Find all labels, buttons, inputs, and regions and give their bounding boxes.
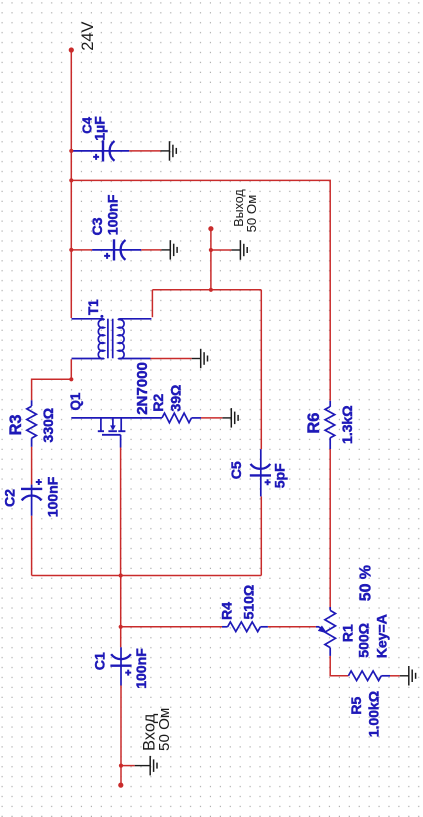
svg-text:R6: R6 [305,413,323,434]
junction output ground tap [209,248,213,252]
wire input ground tap [121,765,135,767]
capacitor C2 [21,479,42,516]
ground at R5 [400,675,409,677]
svg-text:50 Ом: 50 Ом [156,708,173,751]
junction feedback rail [119,573,123,577]
wire secondary bottom to ground [151,358,192,360]
junction input node [119,625,123,629]
wire rail to input node [120,576,122,648]
wire output ground tap [211,249,232,251]
svg-text:50 %: 50 % [357,565,374,601]
ground at T1 secondary [192,358,201,360]
wire R1 bottom to R5 [330,656,348,676]
resistor R4 [222,626,228,628]
resistor R6 [329,401,331,407]
wire C5 top riser [260,290,262,449]
ground at R2 [222,417,231,419]
transformer T1 [72,319,152,359]
node input terminal [118,783,123,788]
svg-text:C2: C2 [3,489,19,507]
polarity dot T1 [100,315,103,318]
svg-text:Q1: Q1 [68,392,83,410]
wire Q1 gate drop [120,448,122,576]
svg-text:50 Ом: 50 Ом [244,195,259,233]
svg-text:5pF: 5pF [273,463,289,488]
resistor R2 [162,413,192,423]
node output terminal [208,226,213,231]
svg-text:R1: R1 [340,624,356,642]
node 24V terminal [69,47,74,52]
junction output node [209,288,213,292]
svg-text:100nF: 100nF [46,476,62,517]
svg-text:T1: T1 [86,299,101,315]
svg-text:2N7000: 2N7000 [134,362,151,415]
svg-text:C5: C5 [229,461,245,479]
wire R3 to C2 [31,447,33,485]
capacitor C4 [72,140,130,161]
svg-text:1.00kΩ: 1.00kΩ [367,691,383,737]
svg-text:R2: R2 [151,394,167,412]
wire R2 to ground [201,417,222,419]
svg-text:C1: C1 [92,652,108,670]
wire C4 to ground [129,150,160,152]
wire R4 to wiper [268,626,316,628]
svg-text:39Ω: 39Ω [169,385,185,412]
wire node to R3 [32,379,72,400]
wiper arrow R1 [316,626,319,628]
resistor R3 [31,400,33,406]
junction primary bottom [69,377,73,381]
ground at C3 [161,249,170,251]
wire 24V rail down left side [70,50,72,318]
ground at input [135,765,151,767]
capacitor C1 [110,647,131,685]
wire top rail to R6 [71,180,330,400]
svg-text:100nF: 100nF [134,648,150,689]
svg-text:330Ω: 330Ω [41,408,57,443]
wire C1 bottom to input [120,686,122,786]
ground at output [231,249,240,251]
svg-text:510Ω: 510Ω [242,585,258,620]
wire C3 to ground [141,249,161,251]
wire C5 bottom drop [260,496,262,575]
wire primary bottom drop [70,359,72,379]
capacitor C5 [250,449,271,496]
svg-text:100nF: 100nF [105,194,121,235]
svg-text:1.3kΩ: 1.3kΩ [340,406,356,445]
svg-text:1µF: 1µF [93,116,109,141]
ground at C4 [161,150,170,152]
wire secondary top riser [151,290,153,317]
wire R4 feed [121,626,222,628]
svg-text:C3: C3 [90,217,106,235]
wire output node horizontal [152,289,261,291]
wire bottom feedback rail [32,575,262,577]
potentiometer R1 [329,607,331,610]
svg-text:R4: R4 [220,602,236,620]
svg-text:R5: R5 [349,697,365,715]
svg-text:24V: 24V [79,21,97,50]
capacitor C3 [92,239,141,260]
junction top rail [69,178,73,182]
svg-text:500Ω: 500Ω [357,623,373,658]
wire C3 tap [71,249,92,251]
junction input ground tap [119,764,123,768]
wire R5 to ground [390,675,400,677]
wire R6 bottom to potentiometer R1 [329,449,331,607]
wire output terminal drop [210,229,212,290]
resistor R5 [348,671,381,681]
transistor Q1 2N7000 [71,418,162,448]
svg-text:Key=A: Key=A [374,614,390,658]
junction C4 tap [69,149,73,153]
svg-text:R3: R3 [7,414,25,435]
wire C2 bottom drop [31,516,33,576]
junction C3 tap [69,248,73,252]
